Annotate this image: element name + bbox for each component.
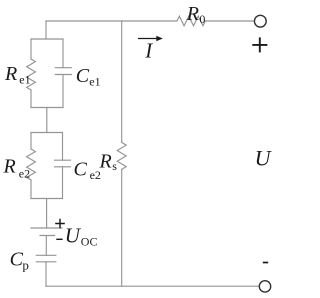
capacitor Ce2 bbox=[55, 160, 71, 167]
svg-text:e1: e1 bbox=[19, 73, 30, 87]
svg-text:C: C bbox=[74, 159, 88, 181]
wire middle vertical lower bbox=[121, 169, 123, 286]
svg-text:e1: e1 bbox=[89, 74, 100, 88]
wire Re2 branch lower bbox=[30, 180, 32, 199]
battery Uoc long plate bbox=[31, 227, 62, 229]
svg-text:0: 0 bbox=[199, 12, 205, 26]
wire Ce2 branch lower bbox=[62, 167, 64, 199]
wire Ce2 branch upper bbox=[62, 133, 64, 161]
battery Uoc short plate bbox=[40, 235, 55, 237]
svg-text:p: p bbox=[22, 257, 29, 272]
wire middle vertical upper bbox=[121, 21, 123, 142]
terminal circle bottom right bbox=[259, 281, 270, 292]
battery plus sign bbox=[55, 219, 65, 229]
wire Ce1 branch lower bbox=[62, 75, 64, 108]
svg-text:U: U bbox=[65, 224, 82, 248]
resistor Re2 bbox=[27, 149, 36, 180]
wire box1 top edge bbox=[31, 38, 63, 40]
minus sign terminal bbox=[263, 262, 268, 264]
wire connector box2 to battery bbox=[46, 199, 48, 229]
svg-text:R: R bbox=[186, 3, 199, 25]
svg-text:R: R bbox=[4, 63, 17, 85]
svg-text:C: C bbox=[76, 65, 90, 87]
wire bottom bbox=[46, 285, 259, 287]
plus sign terminal bbox=[252, 37, 267, 52]
svg-text:U: U bbox=[255, 146, 273, 171]
svg-text:R: R bbox=[3, 156, 16, 178]
wire box2 bottom edge bbox=[31, 198, 63, 200]
wire Re1 branch upper bbox=[30, 39, 32, 59]
wire connector box1 to box2 bbox=[46, 108, 48, 133]
capacitor Ce1 bbox=[55, 68, 71, 75]
capacitor Cp bbox=[36, 255, 56, 261]
wire top left segment bbox=[46, 20, 177, 22]
wire battery to Cp bbox=[45, 236, 47, 256]
wire Ce1 branch upper bbox=[62, 39, 64, 68]
wire left drop bbox=[45, 21, 47, 39]
resistor Re1 bbox=[27, 59, 36, 90]
wire Re1 branch lower bbox=[30, 90, 32, 108]
resistor R0 bbox=[177, 16, 205, 26]
current arrow I bbox=[138, 36, 163, 41]
wire Cp to bottom bbox=[45, 262, 47, 286]
resistor Rs bbox=[117, 142, 126, 169]
svg-text:I: I bbox=[144, 39, 153, 63]
svg-text:s: s bbox=[112, 159, 117, 173]
wire Re2 branch upper bbox=[30, 133, 32, 150]
svg-text:OC: OC bbox=[81, 234, 98, 248]
wire top right segment bbox=[205, 20, 254, 22]
terminal circle top right bbox=[254, 15, 266, 27]
svg-text:e2: e2 bbox=[19, 166, 30, 180]
battery minus sign bbox=[56, 238, 62, 240]
svg-text:R: R bbox=[99, 151, 112, 173]
wire box1 bottom edge bbox=[31, 107, 63, 109]
wire box2 top edge bbox=[31, 132, 63, 134]
